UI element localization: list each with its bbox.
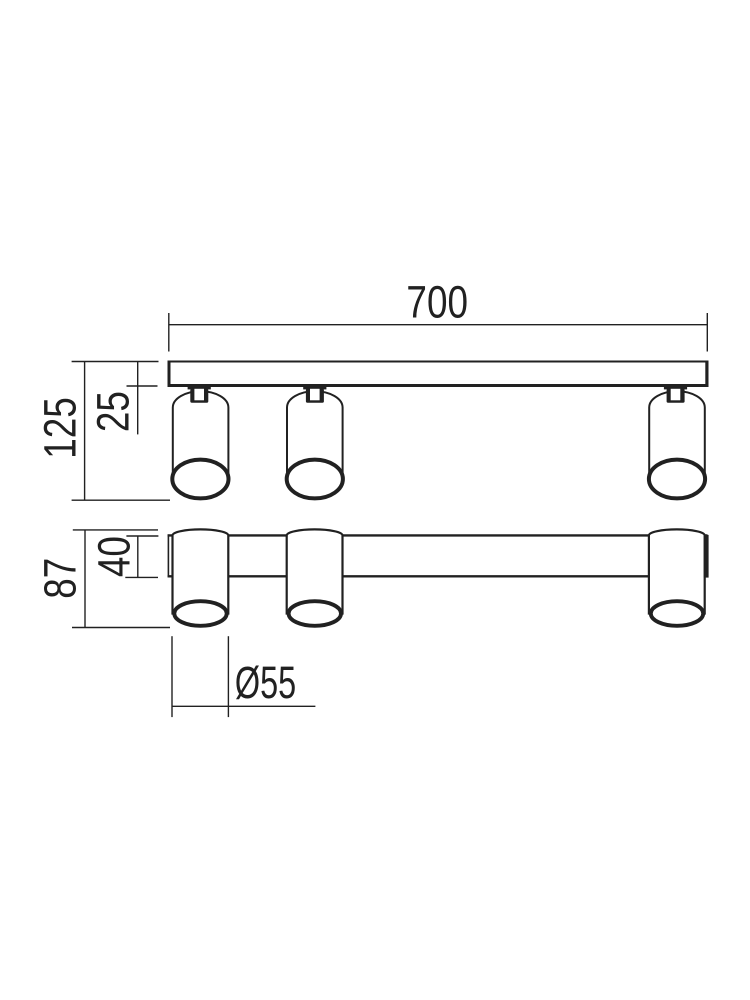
- svg-text:700: 700: [406, 277, 468, 327]
- svg-text:Ø55: Ø55: [235, 659, 296, 708]
- svg-text:125: 125: [35, 397, 85, 459]
- svg-text:40: 40: [89, 536, 139, 577]
- svg-text:87: 87: [35, 558, 85, 599]
- svg-text:25: 25: [88, 391, 138, 432]
